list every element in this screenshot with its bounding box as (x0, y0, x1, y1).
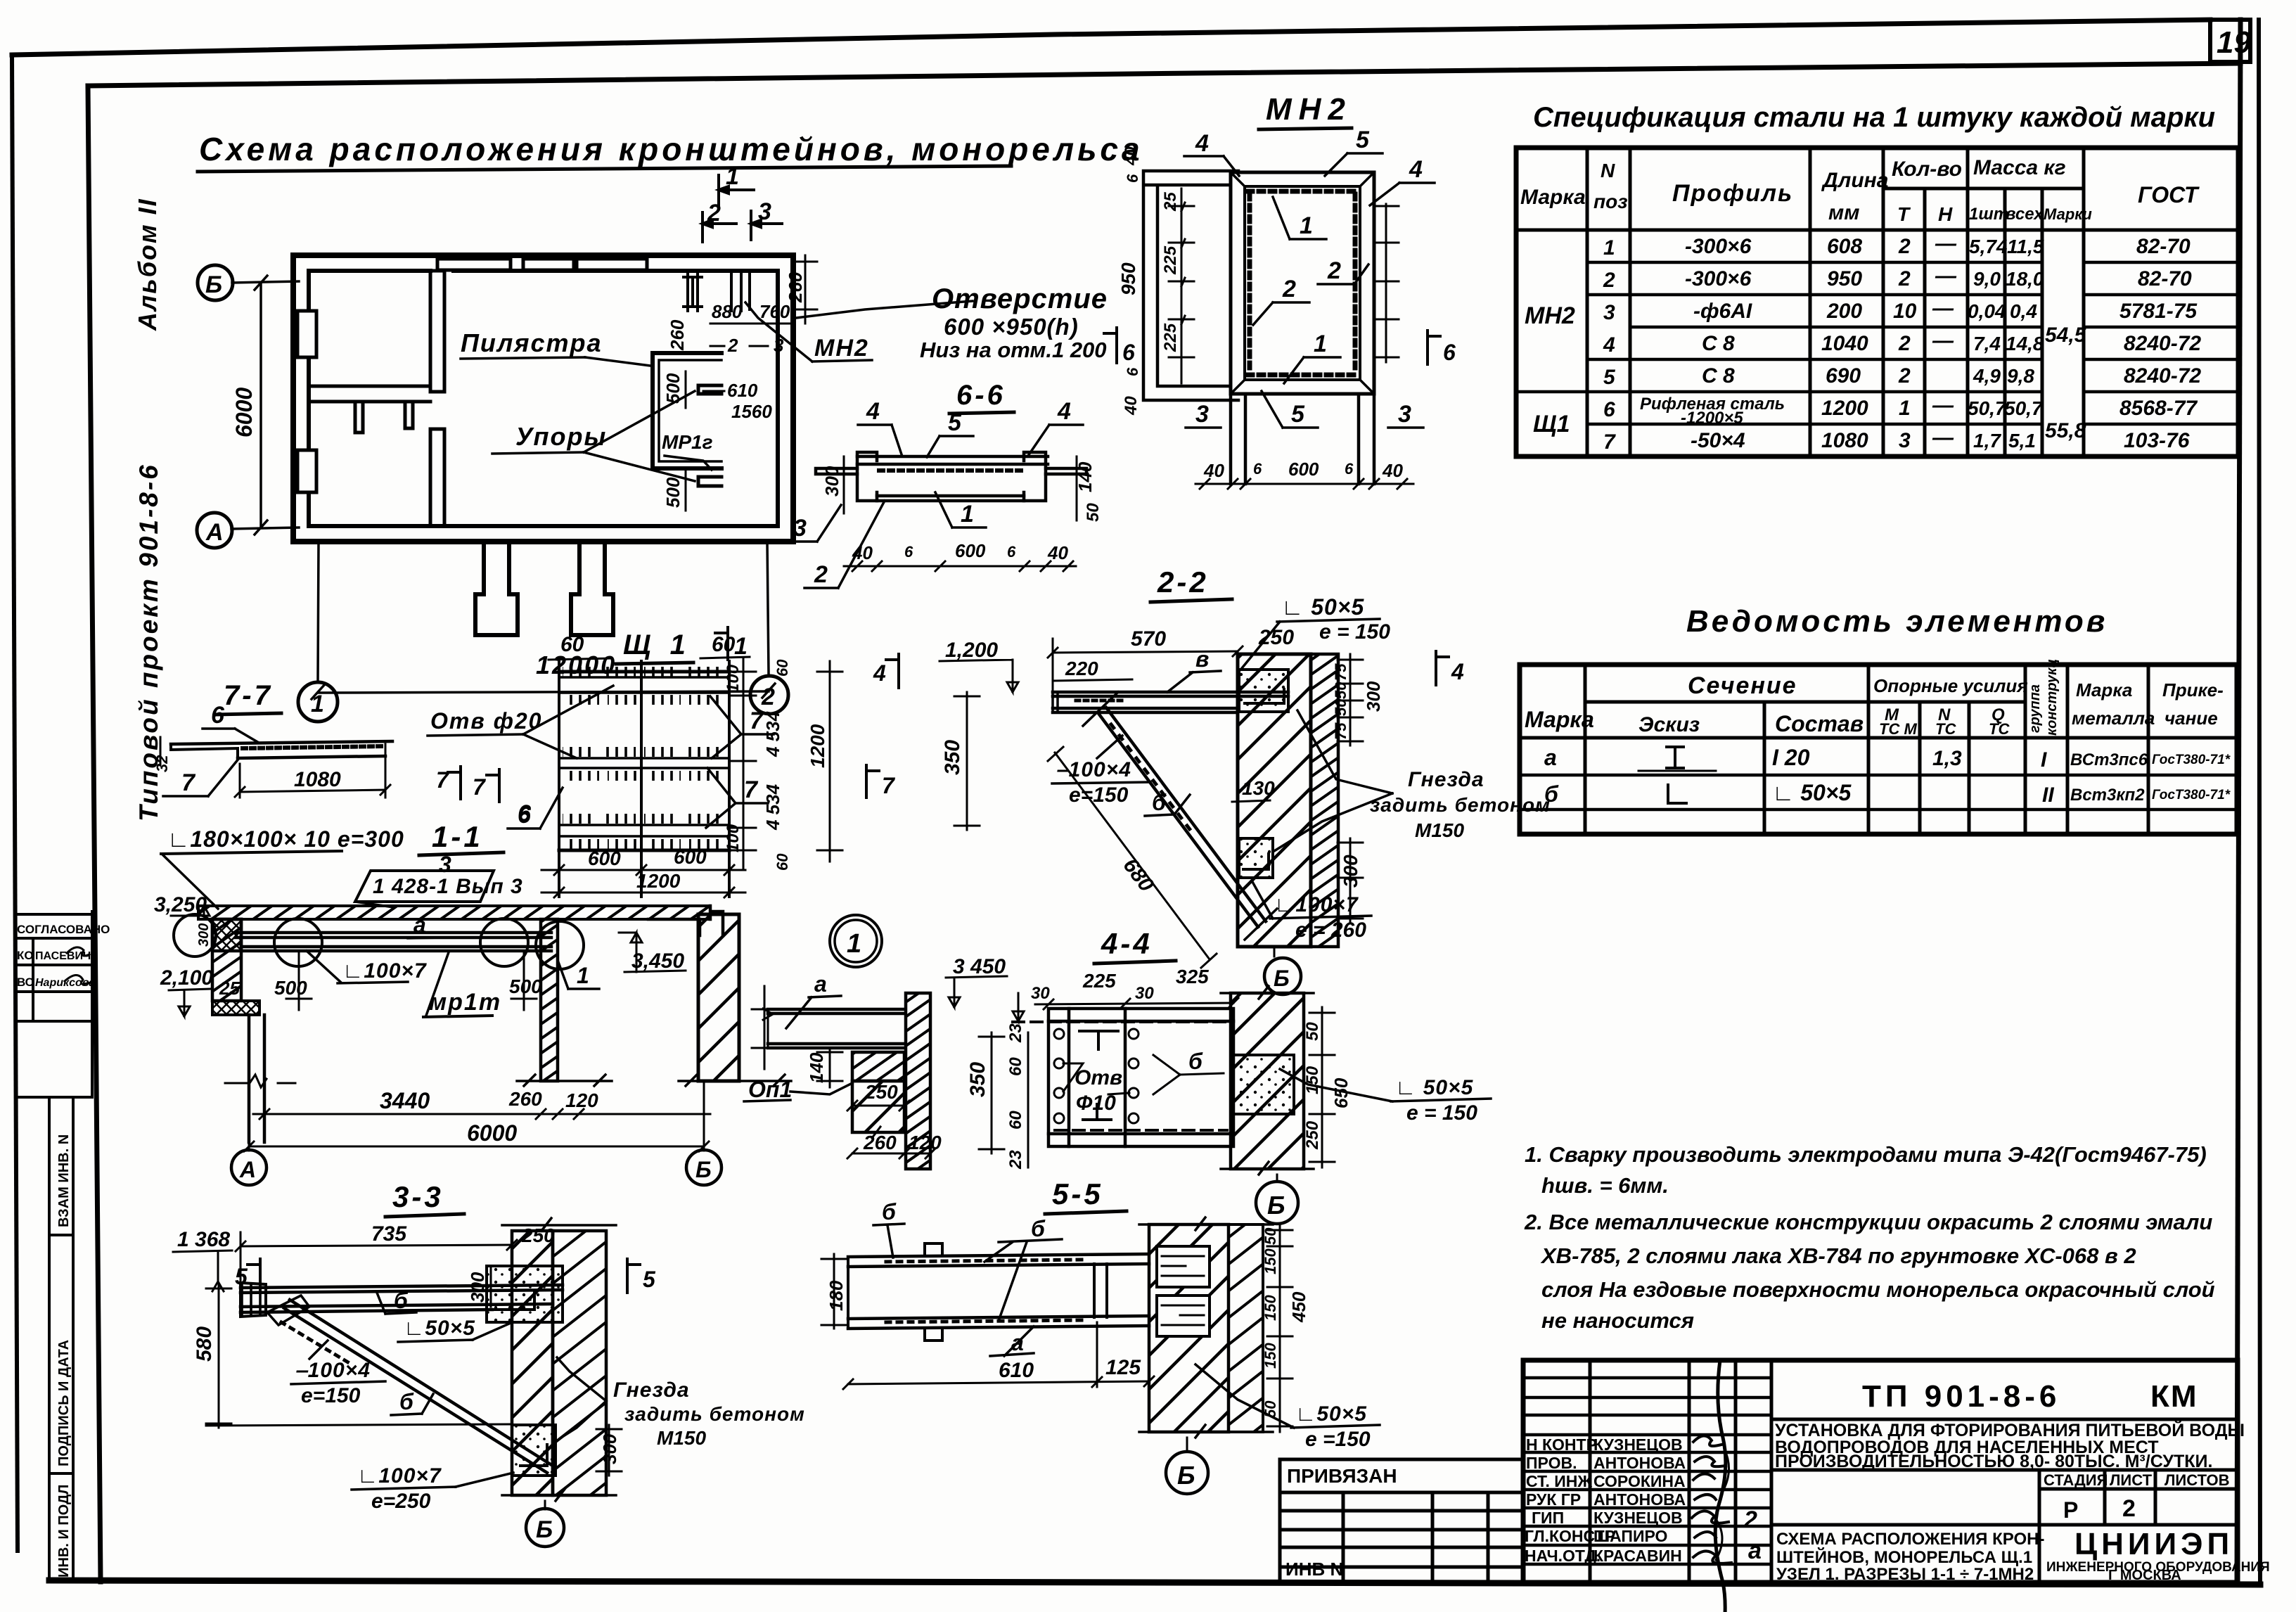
2-2 bottom pocket concrete (1239, 838, 1273, 878)
svg-text:ЦНИИЭП: ЦНИИЭП (2074, 1527, 2233, 1561)
svg-text:е =150: е =150 (1305, 1428, 1371, 1451)
svg-text:1: 1 (734, 633, 748, 660)
3-3 wall inner leaf hatched (512, 1231, 553, 1495)
svg-text:∟ 50×5: ∟ 50×5 (1395, 1076, 1474, 1099)
svg-text:325: 325 (1176, 966, 1209, 987)
svg-text:4: 4 (1057, 398, 1071, 425)
svg-text:50: 50 (1332, 698, 1349, 716)
svg-text:1шт: 1шт (1969, 205, 2008, 224)
svg-text:1200: 1200 (807, 724, 828, 768)
svg-text:4: 4 (873, 660, 886, 686)
4-4 wall hatched (1231, 993, 1304, 1169)
svg-text:3-3: 3-3 (392, 1180, 444, 1213)
node hatched block (212, 919, 241, 951)
svg-text:82-70: 82-70 (2138, 267, 2192, 290)
Shch1 band 1 lines (559, 677, 729, 693)
svg-text:50,7: 50,7 (2004, 397, 2044, 419)
svg-text:ИНВ N: ИНВ N (1285, 1559, 1343, 1580)
MH2 cut mark 6 left (1104, 328, 1117, 363)
svg-text:225: 225 (1161, 323, 1180, 352)
left footing pad (212, 1001, 259, 1015)
svg-text:2: 2 (1603, 269, 1615, 292)
svg-text:Оп1: Оп1 (748, 1077, 792, 1102)
3-3 cut mark 5 right (627, 1259, 640, 1293)
svg-text:1: 1 (961, 501, 974, 527)
svg-text:75: 75 (1332, 663, 1349, 681)
svg-text:II: II (2042, 783, 2054, 807)
svg-text:0,4: 0,4 (2010, 300, 2037, 322)
foundation pedestal 1 (475, 542, 518, 635)
svg-text:225: 225 (1082, 970, 1116, 992)
node pier below (852, 1081, 904, 1132)
svg-text:мр1т: мр1т (429, 989, 501, 1016)
svg-text:чание: чание (2164, 708, 2218, 729)
5-5 axis circle B (1186, 1438, 1188, 1452)
svg-text:5: 5 (948, 409, 962, 436)
svg-text:4,9: 4,9 (1973, 365, 2001, 387)
svg-text:ТС М: ТС М (1879, 720, 1917, 738)
svg-text:300: 300 (821, 466, 842, 497)
svg-text:КМ: КМ (2150, 1379, 2198, 1414)
svg-text:І: І (2041, 748, 2047, 772)
spec table row lines (1516, 262, 2238, 424)
svg-text:1080: 1080 (1821, 429, 1868, 452)
elements table frame (1520, 665, 2237, 834)
svg-text:6: 6 (1124, 174, 1141, 183)
svg-text:∟ 50×5: ∟ 50×5 (1281, 594, 1365, 620)
svg-text:Марка: Марка (1525, 707, 1594, 732)
svg-text:ГИП: ГИП (1532, 1509, 1564, 1527)
5-5 bottom ground (1139, 1425, 1273, 1438)
7-7 plate (171, 741, 392, 758)
MH2 side view frame (1143, 171, 1238, 400)
svg-text:∟180×100× 10 е=300: ∟180×100× 10 е=300 (167, 826, 404, 852)
upory leaders (584, 391, 695, 452)
svg-text:М150: М150 (657, 1427, 706, 1449)
svg-text:300: 300 (196, 923, 212, 947)
svg-text:3: 3 (1603, 301, 1615, 324)
axis circle A (197, 513, 232, 548)
3-3 diagonal brace (284, 1300, 553, 1473)
partition vertical upper (430, 271, 444, 392)
svg-text:СТАДИЯ: СТАДИЯ (2044, 1471, 2108, 1489)
svg-text:25: 25 (219, 978, 240, 999)
svg-text:55,8: 55,8 (2045, 419, 2086, 442)
ground line under column (517, 1075, 612, 1086)
svg-text:2: 2 (1898, 364, 1911, 388)
svg-text:Марка: Марка (1520, 186, 1586, 209)
svg-text:АНТОНОВА: АНТОНОВА (1593, 1454, 1686, 1472)
MH2 cut mark 6 right (1428, 331, 1440, 364)
svg-text:б: б (1031, 1216, 1046, 1241)
left wall hatched (212, 919, 241, 1001)
svg-text:5: 5 (235, 1264, 248, 1289)
svg-text:60: 60 (774, 853, 791, 871)
svg-text:4: 4 (1603, 333, 1615, 357)
svg-text:ТП 901-8-6: ТП 901-8-6 (1862, 1379, 2060, 1414)
MH2 legs below (1231, 394, 1374, 484)
dim line 12000 (318, 691, 769, 693)
svg-text:3: 3 (439, 852, 451, 877)
4-4 hidden edges dashed (1013, 1021, 1231, 1023)
svg-text:∟100×7: ∟100×7 (342, 959, 427, 983)
svg-text:ГОСТ: ГОСТ (2138, 182, 2200, 207)
stop T-mark lower (698, 477, 721, 486)
svg-text:∟100×7: ∟100×7 (1274, 893, 1359, 916)
3-3 bottom line under wall (502, 1488, 616, 1501)
svg-text:ПРОВ.: ПРОВ. (1526, 1454, 1577, 1472)
svg-text:1: 1 (726, 163, 739, 190)
5-5 pocket window 1 (1157, 1246, 1210, 1287)
Shch1 vertical edges (559, 661, 729, 897)
sheet bottom border line (49, 1580, 2260, 1585)
svg-text:Гнезда: Гнезда (1408, 768, 1484, 791)
partition horizontal (309, 386, 430, 402)
Shch1 cut mark 7 right (866, 765, 879, 798)
svg-text:—: — (1932, 297, 1954, 320)
svg-text:ТС: ТС (1935, 720, 1956, 738)
svg-text:10: 10 (1893, 300, 1917, 323)
svg-text:250: 250 (1258, 626, 1294, 649)
svg-text:82-70: 82-70 (2136, 235, 2191, 258)
svg-text:600: 600 (674, 846, 707, 868)
spec table header lines (1516, 188, 2238, 230)
svg-text:7: 7 (750, 708, 764, 734)
svg-text:100: 100 (724, 824, 743, 852)
elements table verticals (1585, 665, 2148, 834)
svg-text:Б: Б (1274, 966, 1290, 991)
svg-text:1200: 1200 (636, 870, 681, 892)
3-3 bottom pocket angle (520, 1445, 547, 1466)
axis circle B 1-1 (703, 1081, 705, 1151)
2-2 cut mark 4 left (886, 654, 899, 688)
svg-text:Отв: Отв (1075, 1066, 1122, 1089)
svg-text:250: 250 (864, 1081, 898, 1103)
svg-text:—: — (1932, 394, 1954, 417)
svg-text:б: б (1188, 1049, 1203, 1074)
svg-text:Состав: Состав (1775, 711, 1864, 736)
svg-text:6: 6 (211, 702, 225, 729)
svg-text:40: 40 (1122, 396, 1141, 416)
svg-text:4: 4 (1195, 130, 1209, 157)
section cut mark 1 bottom (715, 627, 728, 660)
svg-text:4: 4 (1409, 156, 1423, 183)
svg-text:1 428-1 Вып 3: 1 428-1 Вып 3 (373, 875, 523, 898)
stop T-mark upper (698, 385, 721, 394)
3-3 top bracket plate (240, 1285, 563, 1312)
svg-text:2. Все металлические конструк: 2. Все металлические конструкции окрасит… (1524, 1210, 2212, 1234)
svg-text:2: 2 (727, 335, 738, 356)
3-3 wall outer leaf hatched (553, 1231, 606, 1495)
svg-text:—: — (1935, 264, 1957, 288)
svg-text:е = 260: е = 260 (1295, 919, 1366, 942)
stadia list listov block (2039, 1470, 2238, 1525)
6-6 top plate (857, 456, 1048, 464)
monorail symbol in plan 2 (731, 273, 750, 311)
svg-text:СХЕМА РАСПОЛОЖЕНИЯ КРОН-: СХЕМА РАСПОЛОЖЕНИЯ КРОН- (1776, 1530, 2044, 1549)
ceiling slab hatched (198, 906, 710, 919)
svg-text:300: 300 (467, 1272, 488, 1303)
svg-text:2: 2 (814, 561, 828, 588)
5-5 clip top (925, 1243, 942, 1255)
svg-text:Марка: Марка (2076, 679, 2132, 701)
svg-text:760: 760 (759, 301, 790, 322)
pilaster pocket walls (653, 353, 721, 468)
svg-text:ШТЕЙНОВ, МОНОРЕЛЬСА Щ.1: ШТЕЙНОВ, МОНОРЕЛЬСА Щ.1 (1776, 1547, 2032, 1567)
svg-text:∟50×5: ∟50×5 (404, 1317, 475, 1340)
svg-text:60: 60 (712, 633, 736, 656)
4-4 bolt circles right (1129, 1029, 1139, 1039)
svg-text:Прике-: Прике- (2162, 679, 2224, 701)
section cut mark 1 top (719, 175, 754, 206)
2-2 brace end marks (1083, 692, 1277, 940)
svg-text:2-2: 2-2 (1157, 565, 1209, 599)
svg-text:260: 260 (508, 1088, 542, 1110)
axis drop line 1 (318, 542, 319, 681)
Shch1 far right dim 1200 (829, 661, 831, 862)
svg-text:350: 350 (966, 1062, 989, 1097)
svg-text:е=250: е=250 (371, 1490, 431, 1513)
svg-text:УЗЕЛ 1. РАЗРЕЗЫ 1-1 ÷ 7-1МН2: УЗЕЛ 1. РАЗРЕЗЫ 1-1 ÷ 7-1МН2 (1776, 1565, 2034, 1584)
svg-text:б: б (1152, 790, 1167, 815)
svg-text:690: 690 (1826, 364, 1861, 388)
Shch1 band 2 ticks (563, 747, 720, 781)
svg-text:40: 40 (1382, 460, 1403, 481)
3-3 bracket left end plate (240, 1283, 266, 1317)
svg-text:МН2: МН2 (1266, 92, 1352, 127)
svg-text:7: 7 (882, 773, 896, 798)
svg-text:Щ1: Щ1 (1533, 411, 1570, 437)
svg-text:группа: группа (2027, 684, 2043, 733)
svg-text:2,100: 2,100 (160, 966, 213, 990)
svg-text:2: 2 (2122, 1495, 2136, 1522)
line above bottom band (1771, 1525, 2238, 1582)
svg-text:Опорные усилия: Опорные усилия (1873, 675, 2028, 696)
svg-text:60: 60 (1006, 1057, 1025, 1076)
svg-text:120: 120 (565, 1089, 598, 1111)
svg-text:30: 30 (1135, 984, 1154, 1003)
3-3 cut mark 5 left (248, 1259, 260, 1293)
MH2 weld tick rows (1248, 189, 1357, 194)
3-3 brace top weld block (267, 1296, 309, 1325)
svg-text:260: 260 (667, 319, 688, 351)
svg-text:2: 2 (1898, 267, 1911, 290)
2-2 pocket angle (1245, 689, 1284, 703)
svg-text:задить бетоном: задить бетоном (624, 1403, 805, 1425)
7-7 tick row (243, 746, 383, 748)
5-5 beam plan (848, 1254, 1149, 1329)
svg-text:1560: 1560 (731, 401, 772, 422)
7-7 left tip (171, 744, 238, 758)
svg-text:4: 4 (866, 398, 880, 425)
svg-text:140: 140 (806, 1052, 827, 1083)
svg-text:-ф6АІ: -ф6АІ (1693, 300, 1752, 323)
svg-text:5: 5 (1291, 401, 1305, 428)
signature area rows (1523, 1378, 1771, 1564)
2-2 bottom pocket angle (1243, 854, 1269, 869)
MH2 frame miters (1231, 172, 1374, 394)
svg-text:150: 150 (1303, 1066, 1322, 1094)
callout box 1.428-1 vyp 3 (355, 871, 494, 902)
svg-text:608: 608 (1827, 235, 1862, 258)
svg-text:Б: Б (1267, 1191, 1285, 1220)
svg-text:7: 7 (1603, 430, 1616, 454)
svg-text:Ведомость элементов: Ведомость элементов (1686, 604, 2108, 639)
svg-text:1040: 1040 (1821, 332, 1868, 355)
svg-text:ВСт3пс6: ВСт3пс6 (2070, 750, 2148, 769)
Shch1 cut mark 7 left (487, 769, 499, 802)
svg-text:—: — (1932, 329, 1954, 352)
svg-text:Б: Б (1177, 1461, 1195, 1490)
Shch1 bottom dims (541, 869, 745, 871)
left wall recess (297, 311, 316, 357)
svg-text:N: N (1601, 160, 1615, 181)
svg-text:6000: 6000 (231, 388, 257, 437)
svg-text:8568-77: 8568-77 (2119, 397, 2198, 420)
svg-text:1,7: 1,7 (1973, 430, 2001, 452)
opening leader (796, 301, 973, 318)
2-2 right small dims 75 50 50 75 (1349, 654, 1352, 746)
node circle on wall (174, 914, 216, 957)
pilyastra leader (585, 357, 650, 366)
svg-text:І 20: І 20 (1772, 745, 1810, 770)
6-6 left stub plate (816, 468, 857, 474)
svg-text:950: 950 (1117, 262, 1139, 295)
privyazan table frame (1280, 1459, 1523, 1578)
svg-text:500: 500 (274, 977, 307, 999)
2-2 corbel beam (1053, 692, 1288, 712)
5-5 wall top break (1139, 1217, 1273, 1230)
svg-text:конструкц: конструкц (2044, 659, 2060, 736)
6-6 right channel (1024, 452, 1046, 501)
node wall strip hatched (906, 993, 930, 1169)
2-2 corbel left end (1053, 692, 1058, 712)
5-5 right dims (1279, 1224, 1281, 1432)
section cut mark 2 top (703, 212, 736, 242)
node support pad (852, 1052, 904, 1081)
svg-text:А: А (205, 519, 224, 546)
svg-text:Спецификация стали на 1 штуку: Спецификация стали на 1 штуку каждой мар… (1533, 102, 2215, 133)
svg-text:2: 2 (707, 200, 721, 226)
svg-text:-300×6: -300×6 (1685, 235, 1752, 258)
svg-text:СТ. ИНЖ: СТ. ИНЖ (1526, 1472, 1592, 1490)
svg-text:25: 25 (1161, 192, 1180, 212)
svg-text:150: 150 (1262, 1248, 1279, 1274)
wall break mark (225, 1075, 295, 1087)
svg-text:50,7: 50,7 (1968, 397, 2007, 419)
svg-text:1: 1 (847, 929, 861, 959)
4-4 inner plates (1048, 1009, 1233, 1146)
svg-text:2: 2 (761, 684, 775, 710)
svg-text:ПРИВЯЗАН: ПРИВЯЗАН (1287, 1465, 1397, 1487)
svg-text:‒100×4: ‒100×4 (295, 1359, 371, 1382)
svg-text:-300×6: -300×6 (1685, 267, 1752, 290)
svg-text:—: — (1935, 232, 1957, 255)
axis line A (231, 527, 299, 529)
svg-text:е = 150: е = 150 (1319, 620, 1390, 644)
svg-text:2: 2 (1327, 257, 1341, 284)
svg-text:металла: металла (2072, 708, 2155, 729)
svg-text:950: 950 (1827, 267, 1862, 290)
6-6 bottom plate (877, 496, 1024, 501)
svg-text:1 368: 1 368 (177, 1228, 230, 1251)
svg-text:260: 260 (785, 271, 806, 303)
sheet right border inner line (2237, 20, 2240, 1584)
svg-text:ЛИСТ: ЛИСТ (2110, 1471, 2153, 1489)
svg-text:6: 6 (1443, 340, 1456, 365)
2-2 wall outer leaf (1311, 654, 1338, 947)
svg-text:Б: Б (205, 271, 222, 298)
svg-text:М150: М150 (1415, 819, 1464, 841)
svg-text:60: 60 (774, 659, 791, 677)
svg-text:880: 880 (712, 301, 743, 322)
MH2 bottom dim line (1195, 483, 1413, 485)
MH2 side view dim grid (1181, 188, 1183, 383)
svg-text:1200: 1200 (1821, 397, 1868, 420)
4-4 right dims (1321, 1007, 1323, 1168)
bottom dim line 2 (249, 1146, 704, 1148)
margin stamp strip lines (49, 1097, 73, 1580)
5-5 wall inner leaf (1149, 1224, 1229, 1432)
svg-text:4-4: 4-4 (1101, 927, 1153, 960)
svg-text:Профиль: Профиль (1672, 180, 1793, 207)
svg-text:2: 2 (1898, 235, 1911, 258)
svg-text:КО: КО (17, 949, 34, 962)
svg-text:1: 1 (311, 691, 324, 717)
4-4 elevation flag (1013, 993, 1024, 1021)
svg-text:КРАСАВИН: КРАСАВИН (1593, 1547, 1682, 1565)
4-4 bolt circles left (1054, 1029, 1064, 1039)
4-4 pocket concrete (1232, 1055, 1294, 1114)
svg-text:1. Сварку производить электрод: 1. Сварку производить электродами типа Э… (1525, 1142, 2207, 1167)
svg-text:Гнезда: Гнезда (613, 1378, 690, 1402)
svg-text:1-1: 1-1 (432, 820, 483, 853)
elements table header lines (1520, 702, 2237, 738)
svg-text:Низ на отм.1 200: Низ на отм.1 200 (920, 338, 1107, 362)
svg-text:МН2: МН2 (1525, 302, 1575, 329)
svg-text:а: а (1748, 1537, 1762, 1564)
svg-text:ЛИСТОВ: ЛИСТОВ (2164, 1471, 2229, 1489)
5-5 weld ticks on beam (886, 1260, 1083, 1262)
svg-text:0,04: 0,04 (1968, 300, 2006, 322)
Shch1 top and bottom edge (559, 672, 729, 850)
sheet right border outer line (2259, 20, 2260, 1584)
svg-text:1: 1 (1300, 212, 1313, 239)
axis circle 1 (298, 682, 338, 722)
inner frame top line (88, 63, 2240, 86)
axis drop line 2 (767, 542, 769, 674)
svg-text:а: а (1544, 745, 1557, 770)
svg-text:поз: поз (1593, 191, 1628, 212)
svg-text:40: 40 (1047, 542, 1068, 563)
svg-text:Длина: Длина (1821, 169, 1888, 192)
2-2 brace dashes (1111, 724, 1195, 837)
svg-text:ШАПИРО: ШАПИРО (1593, 1527, 1667, 1545)
svg-text:Схема расположения кронштейнов: Схема расположения кронштейнов, монорель… (199, 131, 1143, 167)
svg-text:∟50×5: ∟50×5 (1295, 1402, 1367, 1426)
svg-text:е=150: е=150 (301, 1384, 361, 1407)
svg-text:5-5: 5-5 (1052, 1177, 1103, 1210)
section cut mark 3 top (751, 211, 782, 240)
4-4 bottom ground (1221, 1162, 1314, 1175)
page number box (2210, 20, 2250, 62)
svg-text:НАЧ.ОТД.: НАЧ.ОТД. (1525, 1547, 1601, 1565)
svg-text:580: 580 (193, 1326, 216, 1362)
bottom dim line 1 (253, 1113, 710, 1115)
svg-text:7: 7 (473, 774, 487, 800)
svg-text:Вст3кп2: Вст3кп2 (2070, 786, 2145, 805)
2-2 cut mark 4 right (1436, 651, 1449, 685)
